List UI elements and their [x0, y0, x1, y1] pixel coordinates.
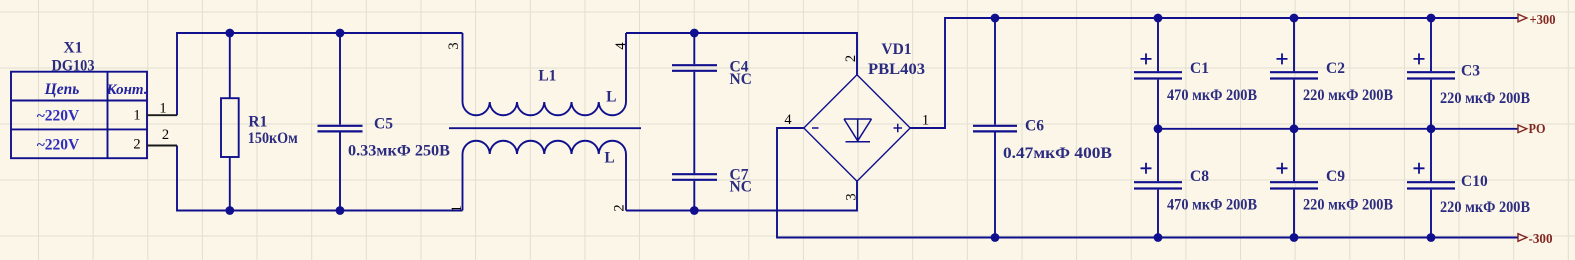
capacitor C6	[973, 126, 1017, 132]
capacitor C2	[1270, 72, 1318, 78]
wire: C6 bottom lead	[994, 133, 996, 238]
capacitor C3 leads	[1430, 18, 1432, 129]
svg-text:C1: C1	[1190, 60, 1209, 77]
svg-text:NC: NC	[730, 71, 752, 88]
capacitor C8	[1134, 182, 1182, 188]
svg-text:C6: C6	[1025, 118, 1044, 135]
junction at C6 top	[991, 14, 1000, 23]
svg-text:C2: C2	[1326, 60, 1345, 77]
svg-text:DG103: DG103	[52, 57, 95, 74]
plus mark of C8	[1141, 163, 1152, 174]
diode symbol inside VD1	[844, 119, 872, 142]
wire: R1 bottom lead	[229, 157, 231, 211]
junction at C1 top	[1154, 14, 1163, 23]
svg-text:4: 4	[613, 42, 629, 50]
svg-text:X1: X1	[64, 40, 83, 57]
inductor L1 winding B	[463, 141, 627, 211]
svg-text:220 мкФ 200В: 220 мкФ 200В	[1440, 199, 1530, 216]
capacitor C5	[318, 126, 363, 132]
svg-text:2: 2	[162, 127, 169, 143]
junction at C8 bottom	[1154, 233, 1163, 242]
port -300 arrow	[1518, 234, 1527, 242]
resistor R1	[221, 98, 239, 157]
svg-text:0.33мкФ 250В: 0.33мкФ 250В	[348, 143, 450, 160]
junction at C6 bottom	[991, 233, 1000, 242]
svg-text:3: 3	[446, 42, 462, 49]
junction at C9 top	[1290, 124, 1299, 133]
svg-text:220 мкФ 200В: 220 мкФ 200В	[1303, 87, 1393, 104]
junction at C7 bottom	[690, 206, 699, 215]
svg-text:NC: NC	[730, 179, 752, 196]
junction at C10 top	[1427, 124, 1436, 133]
svg-text:4: 4	[784, 112, 792, 128]
junction at C9 bottom	[1290, 233, 1299, 242]
wire: bottom AC rail from L1 pin 2 to VD1 pin 3	[626, 181, 857, 210]
capacitor C10 leads	[1430, 129, 1432, 238]
junction at R1 top	[225, 29, 234, 38]
svg-text:C8: C8	[1190, 168, 1209, 185]
svg-text:470 мкФ 200В: 470 мкФ 200В	[1167, 197, 1257, 214]
junction at R1 bottom	[225, 206, 234, 215]
svg-text:150кОм: 150кОм	[248, 130, 298, 147]
wire: top AC rail from L1 pin 4 to VD1 pin 2	[626, 33, 857, 75]
svg-text:1: 1	[449, 205, 465, 212]
capacitor C7	[672, 174, 717, 180]
svg-text:C9: C9	[1326, 168, 1345, 185]
plus mark of C3	[1414, 53, 1425, 64]
X1 pin 2 lead	[147, 145, 177, 147]
svg-text:L: L	[606, 88, 616, 105]
port PO arrow	[1518, 125, 1527, 133]
X1 pin 1 lead	[147, 114, 177, 116]
svg-text:2: 2	[843, 55, 859, 62]
junction at C3 top	[1427, 14, 1436, 23]
plus mark of C10	[1414, 163, 1425, 174]
wire: PO rail	[1158, 128, 1518, 130]
svg-text:Цепь: Цепь	[44, 81, 80, 98]
plus mark of C2	[1277, 53, 1288, 64]
svg-text:C10: C10	[1461, 173, 1488, 190]
junction at C5 bottom	[336, 206, 345, 215]
svg-text:~220V: ~220V	[37, 137, 80, 154]
wire: R1 top lead	[229, 33, 231, 98]
wire: C5 bottom lead	[339, 133, 341, 211]
wire: X1 pin 2 riser and bottom AC rail to L1 pin 1	[177, 146, 463, 211]
port +300 arrow	[1518, 14, 1527, 22]
junction at C2 top	[1290, 14, 1299, 23]
svg-text:C5: C5	[374, 115, 393, 132]
svg-text:2: 2	[612, 204, 628, 211]
svg-text:C3: C3	[1461, 63, 1480, 80]
wire: X1 pin 1 riser and top AC rail to L1 pin 3	[177, 33, 463, 115]
minus polarity mark	[812, 127, 819, 129]
svg-text:2: 2	[133, 137, 140, 153]
plus polarity mark	[894, 124, 903, 132]
svg-text:L: L	[604, 150, 614, 167]
svg-text:~220V: ~220V	[37, 107, 80, 124]
wire: C4 top lead	[693, 33, 695, 64]
junction at C8 top	[1154, 124, 1163, 133]
connector X1 DG103 table	[11, 72, 147, 159]
junction at C4 top	[690, 29, 699, 38]
capacitor C2 leads	[1293, 18, 1295, 129]
capacitor C4	[672, 65, 717, 71]
wire: C5 top lead	[339, 33, 341, 125]
capacitor C1 leads	[1157, 18, 1159, 129]
svg-text:1: 1	[159, 101, 166, 117]
inductor L1 winding A	[463, 33, 627, 115]
capacitor C10	[1407, 182, 1455, 188]
svg-text:220 мкФ 200В: 220 мкФ 200В	[1303, 197, 1393, 214]
wire: C4 to C7	[693, 72, 695, 173]
capacitor C9	[1270, 182, 1318, 188]
wire: VD1 pin 4 to -300 rail	[777, 128, 1518, 238]
wire: C7 bottom lead	[693, 181, 695, 211]
capacitor C3	[1407, 72, 1455, 78]
svg-text:PO: PO	[1529, 122, 1546, 137]
svg-text:+300: +300	[1530, 13, 1556, 28]
svg-text:1: 1	[922, 113, 929, 129]
svg-text:L1: L1	[538, 68, 556, 85]
plus mark of C1	[1141, 53, 1152, 64]
capacitor C9 leads	[1293, 129, 1295, 238]
junction at C10 bottom	[1427, 233, 1436, 242]
svg-text:R1: R1	[248, 114, 267, 131]
plus mark of C9	[1277, 163, 1288, 174]
capacitor C1	[1134, 72, 1182, 78]
svg-text:3: 3	[844, 193, 860, 200]
wire: C6 top lead	[994, 18, 996, 125]
wire: VD1 pin 1 to +300 rail	[910, 18, 1518, 128]
junction at C5 top	[336, 29, 345, 38]
svg-text:-300: -300	[1529, 232, 1553, 247]
capacitor C8 leads	[1157, 129, 1159, 238]
svg-text:0.47мкФ 400В: 0.47мкФ 400В	[1003, 145, 1112, 162]
svg-text:Конт.: Конт.	[105, 82, 147, 98]
bridge rectifier VD1 body	[804, 75, 910, 181]
svg-text:1: 1	[133, 108, 140, 124]
svg-text:PBL403: PBL403	[868, 61, 925, 78]
svg-text:220 мкФ 200В: 220 мкФ 200В	[1440, 90, 1530, 107]
svg-text:470 мкФ 200В: 470 мкФ 200В	[1167, 87, 1257, 104]
L1 core	[449, 127, 641, 129]
svg-text:VD1: VD1	[881, 41, 911, 58]
